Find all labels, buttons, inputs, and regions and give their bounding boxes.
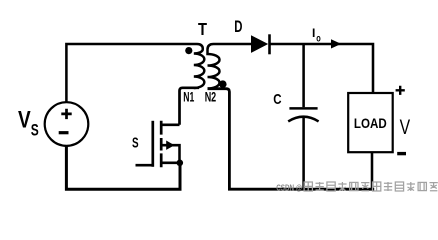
diode D cathode bar xyxy=(268,34,271,54)
transformer T primary winding N1 xyxy=(194,44,205,88)
svg-text:S: S xyxy=(31,120,39,139)
wire top-left rail from Vs to transformer primary xyxy=(66,44,197,102)
transformer T secondary phase dot xyxy=(219,80,227,88)
capacitor C top wire xyxy=(302,44,305,107)
plus sign output xyxy=(396,86,405,95)
MOSFET Q1 channel bar segments xyxy=(160,121,163,167)
LOAD box xyxy=(348,93,393,152)
svg-text:V: V xyxy=(400,116,411,139)
svg-text:N2: N2 xyxy=(205,90,217,105)
svg-text:o: o xyxy=(316,33,321,44)
wire LOAD bottom to ground rail xyxy=(371,152,374,189)
watermark chinese username blocks xyxy=(304,182,438,191)
minus sign of Vs xyxy=(59,131,69,134)
plus sign of Vs xyxy=(61,109,71,119)
wire secondary bottom down to output ground rail xyxy=(208,89,375,190)
watermark CSDN xyxy=(276,182,302,192)
wire secondary top rail to diode xyxy=(214,43,252,46)
wire bottom-left rail Vs to switch source xyxy=(66,146,180,189)
MOSFET Q1 body arrow xyxy=(166,141,174,150)
transformer T primary phase dot xyxy=(185,47,192,54)
capacitor C top plate xyxy=(289,107,317,110)
capacitor C curved bottom plate xyxy=(288,117,318,122)
svg-text:S: S xyxy=(132,134,139,151)
wire primary bottom to MOSFET drain xyxy=(180,88,200,125)
svg-text:D: D xyxy=(234,17,242,36)
MOSFET Q1 drain stub xyxy=(161,124,179,127)
output current arrow Io xyxy=(331,39,341,48)
wire diode to output corner xyxy=(269,44,373,93)
svg-text:C: C xyxy=(273,91,281,108)
MOSFET Q1 source stub xyxy=(161,162,181,165)
MOSFET Q1 gate bar xyxy=(151,121,154,167)
svg-text:I: I xyxy=(312,26,315,40)
MOSFET Q1 body stub xyxy=(161,145,179,163)
svg-text:LOAD: LOAD xyxy=(354,115,387,131)
MOSFET Q1 source junction dot xyxy=(177,160,184,167)
svg-text:CSDN @: CSDN @ xyxy=(276,182,302,192)
capacitor C bottom wire xyxy=(302,117,305,189)
diode D triangle xyxy=(251,35,268,53)
svg-text:T: T xyxy=(198,19,207,39)
svg-text:N1: N1 xyxy=(183,90,194,105)
svg-text:V: V xyxy=(18,107,31,134)
voltage source Vs xyxy=(45,102,89,146)
transformer T secondary winding N2 xyxy=(208,44,220,89)
MOSFET Q1 gate lead xyxy=(136,164,153,167)
minus sign output xyxy=(397,152,406,155)
